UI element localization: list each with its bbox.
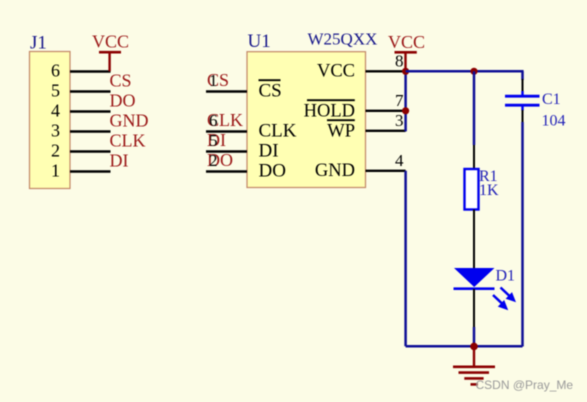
wire net CS at U1 pin 1 bbox=[206, 90, 247, 92]
svg-text:DO: DO bbox=[110, 91, 136, 111]
wire net DI at J1 bbox=[70, 170, 111, 172]
pin 3 wire (U1 WP) bbox=[366, 130, 406, 132]
svg-text:1K: 1K bbox=[479, 182, 499, 199]
capacitor C1 plates bbox=[505, 91, 540, 111]
R1 bottom pin lead to D1 bbox=[473, 210, 475, 269]
pin name VCC bbox=[317, 62, 355, 82]
svg-text:VCC: VCC bbox=[388, 32, 425, 52]
net label GND (J1 side) bbox=[110, 111, 149, 131]
net label CLK (J1 side) bbox=[110, 131, 146, 151]
svg-text:U1: U1 bbox=[248, 31, 271, 52]
designator U1 bbox=[248, 31, 271, 52]
value 104 bbox=[542, 113, 566, 130]
ground symbol bbox=[453, 347, 495, 385]
wire C1 down to ground rail bbox=[521, 122, 524, 347]
pin name WP with overline bbox=[327, 120, 355, 141]
svg-text:CLK: CLK bbox=[259, 121, 297, 142]
net label DI (J1 side) bbox=[110, 151, 129, 171]
wire net DI at U1 pin 5 bbox=[206, 150, 247, 152]
pin 5 of J1 bbox=[51, 81, 60, 101]
svg-text:WP: WP bbox=[327, 121, 355, 141]
svg-text:6: 6 bbox=[51, 61, 60, 81]
junction at pin 7 bbox=[402, 107, 409, 114]
net name VCC (right) bbox=[388, 32, 425, 52]
svg-text:W25QXX: W25QXX bbox=[308, 30, 378, 49]
svg-text:2: 2 bbox=[51, 141, 60, 161]
pin 4 of J1 bbox=[51, 101, 60, 121]
svg-text:8: 8 bbox=[395, 52, 404, 71]
junction at pin 8 / VCC node bbox=[402, 68, 409, 75]
svg-text:VCC: VCC bbox=[317, 62, 355, 82]
LED light arrow 1 bbox=[501, 288, 517, 303]
pin 7 wire (U1 HOLD) bbox=[366, 110, 406, 112]
svg-text:VCC: VCC bbox=[92, 31, 129, 51]
svg-text:3: 3 bbox=[51, 121, 60, 141]
pin 4 wire (U1 GND) bbox=[366, 170, 406, 172]
D1 cathode lead down bbox=[473, 289, 475, 327]
pin number 7 bbox=[395, 91, 404, 110]
svg-text:7: 7 bbox=[395, 91, 404, 110]
pin number 5 (U1 DI) bbox=[209, 131, 218, 150]
pin name GND bbox=[315, 161, 355, 181]
net label CLK (U1 side) bbox=[207, 110, 243, 130]
wire VCC rail down to R1 bbox=[473, 71, 476, 145]
R1 top pin lead bbox=[473, 145, 475, 169]
svg-text:D1: D1 bbox=[496, 268, 516, 285]
comment W25QXX bbox=[308, 30, 378, 49]
net label DO (U1 side) bbox=[207, 150, 233, 170]
resistor R1 body bbox=[465, 169, 479, 210]
wire net CLK at U1 pin 6 bbox=[206, 130, 247, 132]
svg-text:GND: GND bbox=[110, 111, 149, 131]
pin 3 of J1 bbox=[51, 121, 60, 141]
pin 1 of J1 bbox=[51, 161, 60, 181]
svg-text:CS: CS bbox=[110, 71, 132, 91]
net label CS (J1 side) bbox=[110, 71, 132, 91]
wire U1 pin4 down bbox=[404, 171, 407, 346]
svg-text:5: 5 bbox=[51, 81, 60, 101]
svg-text:3: 3 bbox=[395, 111, 404, 130]
pin number 1 (U1 CS) bbox=[209, 71, 218, 90]
IC U1 body bbox=[247, 52, 366, 188]
pin 2 of J1 bbox=[51, 141, 60, 161]
svg-text:DI: DI bbox=[110, 151, 129, 171]
svg-text:4: 4 bbox=[51, 101, 60, 121]
wire net DO at U1 pin 2 bbox=[206, 170, 247, 172]
pin name DI bbox=[259, 141, 279, 162]
svg-text:1: 1 bbox=[51, 161, 60, 181]
C1 bottom pin lead bbox=[522, 110, 524, 122]
watermark CSDN @Pray_Me bbox=[476, 378, 574, 392]
svg-text:CS: CS bbox=[259, 81, 282, 102]
svg-text:GND: GND bbox=[315, 161, 355, 181]
pin name CS with overline bbox=[259, 80, 282, 101]
pin number 6 (U1 CLK) bbox=[209, 111, 218, 130]
wire vertical tying pins 8,7,3 bbox=[404, 71, 407, 131]
pin 6 of J1 bbox=[51, 61, 60, 81]
svg-text:5: 5 bbox=[209, 131, 218, 150]
net name VCC (left) bbox=[92, 31, 129, 51]
power port VCC (right) bbox=[395, 52, 417, 71]
pin number 3 bbox=[395, 111, 404, 130]
svg-text:DI: DI bbox=[259, 141, 279, 162]
svg-text:J1: J1 bbox=[30, 33, 47, 54]
value 1K bbox=[479, 182, 499, 199]
wire J1.6 to VCC bbox=[70, 70, 111, 72]
pin number 8 bbox=[395, 52, 404, 71]
net label CS (U1 side) bbox=[207, 70, 229, 90]
junction at ground node bbox=[470, 343, 478, 351]
pin name CLK bbox=[259, 121, 297, 142]
power port VCC (left) bbox=[99, 52, 121, 71]
C1 top pin lead bbox=[522, 79, 524, 92]
wire VCC rail horizontal bbox=[406, 70, 524, 73]
designator D1 bbox=[496, 268, 516, 285]
wire net CLK at J1 bbox=[70, 150, 111, 152]
svg-text:4: 4 bbox=[395, 151, 404, 170]
svg-text:HOLD: HOLD bbox=[304, 102, 355, 122]
svg-text:C1: C1 bbox=[542, 91, 561, 108]
LED light arrow 2 bbox=[493, 295, 508, 310]
net label DO (J1 side) bbox=[110, 91, 136, 111]
wire net CS at J1 bbox=[70, 90, 111, 92]
wire D1 to ground rail bbox=[473, 327, 476, 347]
designator J1 bbox=[30, 33, 47, 54]
junction at R1 branch bbox=[470, 68, 477, 75]
svg-text:CLK: CLK bbox=[110, 131, 146, 151]
wire net GND at J1 bbox=[70, 130, 111, 132]
designator R1 bbox=[479, 168, 498, 185]
svg-text:104: 104 bbox=[542, 113, 566, 130]
connector J1 body bbox=[30, 52, 71, 189]
wire net DO at J1 bbox=[70, 110, 111, 112]
svg-text:1: 1 bbox=[209, 71, 218, 90]
pin name DO bbox=[259, 161, 286, 182]
svg-text:2: 2 bbox=[209, 151, 218, 170]
pin number 4 bbox=[395, 151, 404, 170]
net label DI (U1 side) bbox=[207, 130, 226, 150]
pin name HOLD with overline bbox=[304, 100, 355, 121]
pin number 2 (U1 DO) bbox=[209, 151, 218, 170]
svg-text:DO: DO bbox=[259, 161, 286, 182]
pin 8 wire (U1 VCC) bbox=[366, 70, 406, 72]
svg-text:CSDN @Pray_Me: CSDN @Pray_Me bbox=[476, 378, 574, 392]
svg-text:6: 6 bbox=[209, 111, 218, 130]
LED D1 cathode bar bbox=[454, 287, 495, 290]
wire ground rail horizontal bbox=[406, 345, 523, 348]
wire C1 corner from VCC rail bbox=[521, 72, 524, 81]
LED D1 anode triangle bbox=[454, 268, 495, 287]
designator C1 bbox=[542, 91, 561, 108]
